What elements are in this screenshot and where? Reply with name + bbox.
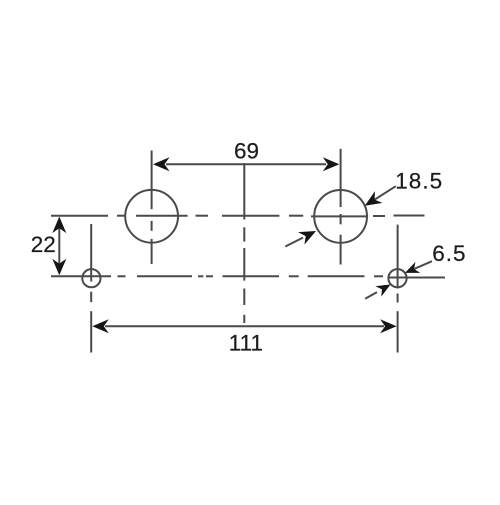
vertical centerline of left small hole (also 111 extension line) (90, 224, 92, 353)
vertical centerline of right small hole (also 111 extension line) (397, 225, 399, 353)
hole circle left small (dia 6.5) (82, 269, 100, 287)
arrowhead 22 down (52, 259, 66, 276)
arrowhead 69 left (153, 157, 170, 171)
svg-text:22: 22 (31, 232, 56, 257)
hole circle right small (dia 6.5) (388, 269, 406, 287)
vertical centerline of right large hole (also 69 extension line) (340, 149, 342, 265)
hole circle left large (dia 18.5) (125, 190, 178, 243)
hole circle right large (dia 18.5) (314, 190, 367, 243)
svg-text:111: 111 (229, 330, 263, 355)
arrowhead leader 18.5 (361, 191, 382, 212)
vertical middle centerline (243, 163, 245, 323)
arrowhead 69 right (323, 157, 340, 171)
vertical centerline of left large hole (also 69 extension line) (151, 151, 153, 265)
arrowhead second large hole (298, 225, 319, 245)
dimension line 69 (166, 163, 326, 165)
arrowhead leader 6.5 (403, 262, 421, 279)
leader line second arrow small hole (365, 292, 377, 299)
arrowhead 22 up (52, 217, 66, 234)
svg-text:18.5: 18.5 (395, 169, 443, 194)
svg-text:6.5: 6.5 (432, 241, 466, 266)
arrowhead second small hole (375, 279, 393, 296)
dimension line 22 (58, 219, 60, 273)
arrowhead 111 right (380, 319, 397, 333)
horizontal centerline through small holes (51, 276, 445, 277)
horizontal centerline through large holes (51, 215, 425, 218)
leader line 6.5 (408, 261, 433, 272)
arrowhead 111 left (92, 319, 109, 333)
leader line second arrow large hole (285, 238, 303, 247)
leader line 18.5 (368, 186, 396, 204)
dimension line 111 (105, 325, 384, 327)
svg-text:69: 69 (234, 139, 259, 164)
